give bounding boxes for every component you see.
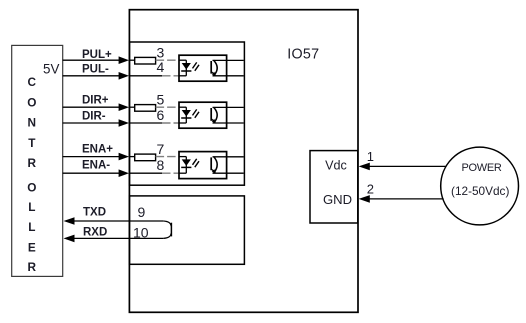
svg-text:TXD: TXD — [83, 206, 106, 218]
svg-text:L: L — [28, 220, 35, 234]
svg-text:O: O — [27, 180, 36, 194]
svg-text:R: R — [28, 156, 37, 170]
svg-text:2: 2 — [367, 181, 374, 196]
svg-text:ENA+: ENA+ — [82, 143, 113, 155]
svg-text:5V: 5V — [43, 62, 59, 77]
wire Vdc supply — [367, 165, 446, 167]
optocoupler U2 — [179, 102, 227, 128]
svg-text:PUL-: PUL- — [82, 64, 109, 76]
wire DIR+ — [63, 106, 120, 108]
svg-text:RXD: RXD — [83, 226, 107, 238]
wire pin4 — [129, 75, 162, 77]
wire U3 emitter — [213, 172, 244, 174]
wire RXD — [66, 237, 163, 239]
power source POWER — [441, 147, 519, 225]
svg-text:5: 5 — [157, 92, 165, 108]
svg-text:E: E — [28, 240, 36, 254]
wire U2 collector — [213, 106, 244, 108]
svg-text:3: 3 — [157, 45, 165, 61]
wire TXD — [66, 220, 163, 222]
opto input sub-box — [130, 42, 245, 185]
svg-text:POWER: POWER — [461, 162, 501, 174]
wire U1 collector — [213, 59, 244, 61]
svg-text:Vdc: Vdc — [325, 159, 347, 173]
svg-text:L: L — [28, 200, 35, 214]
svg-text:GND: GND — [323, 192, 352, 207]
wire pin7 dashed — [156, 156, 179, 158]
wire pin5 dashed — [156, 106, 179, 108]
svg-text:8: 8 — [157, 157, 165, 173]
drive box IO57 — [129, 10, 358, 313]
svg-text:(12-50Vdc): (12-50Vdc) — [451, 184, 509, 198]
resistor R3 — [129, 156, 135, 158]
svg-text:DIR-: DIR- — [82, 111, 106, 123]
wire ENA- — [63, 172, 120, 174]
controller box — [12, 45, 63, 276]
wire U3 collector — [213, 156, 244, 158]
label CONTROLLER (vertical) — [27, 75, 36, 274]
svg-text:O: O — [27, 96, 36, 110]
serial sub-box — [130, 196, 245, 264]
svg-text:4: 4 — [157, 59, 165, 75]
resistor R1 — [129, 59, 135, 61]
wire U2 emitter — [213, 122, 244, 124]
svg-text:DIR+: DIR+ — [82, 94, 109, 106]
svg-text:6: 6 — [157, 107, 165, 123]
svg-text:ENA-: ENA- — [82, 160, 110, 172]
wire PUL- — [63, 75, 120, 77]
optocoupler U1 — [179, 55, 227, 81]
svg-text:PUL+: PUL+ — [82, 49, 112, 61]
svg-text:9: 9 — [138, 204, 146, 220]
wire DIR- — [63, 122, 120, 124]
svg-text:IO57: IO57 — [287, 47, 319, 63]
svg-text:N: N — [28, 115, 37, 129]
svg-text:10: 10 — [133, 224, 149, 240]
svg-text:7: 7 — [157, 141, 165, 157]
resistor R2 — [129, 106, 135, 108]
wire PUL+ — [63, 59, 120, 61]
svg-text:C: C — [28, 75, 37, 89]
wire pin8 — [129, 172, 162, 174]
wire U1 emitter — [213, 75, 244, 77]
serial connector brace — [163, 221, 171, 238]
svg-text:T: T — [28, 136, 36, 150]
wire GND supply — [367, 198, 444, 200]
wire pin3 dashed — [156, 59, 179, 61]
wire ENA+ — [63, 156, 120, 158]
wire pin6 — [129, 122, 162, 124]
svg-text:1: 1 — [367, 149, 374, 164]
svg-text:R: R — [28, 260, 37, 274]
power connector box — [310, 151, 358, 223]
optocoupler U3 — [179, 152, 227, 179]
